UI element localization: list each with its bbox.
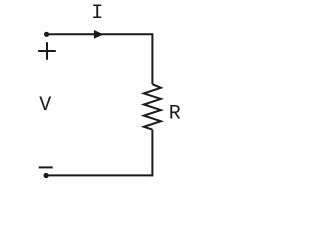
svg-text:V: V (39, 94, 51, 117)
wire: bottom horizontal from - terminal to bottom-right corner (46, 174, 152, 176)
wire: right vertical top lead (151, 33, 153, 84)
plus symbol of source V (38, 42, 56, 60)
minus symbol of source V (39, 166, 53, 168)
node: positive terminal dot (44, 32, 49, 37)
wire: top horizontal from + terminal to top-right corner (47, 33, 153, 35)
wire: right vertical bottom lead (151, 130, 153, 177)
resistor R zigzag (144, 84, 161, 129)
node: negative terminal dot (44, 173, 49, 178)
current arrowhead (I, pointing right) (94, 30, 104, 39)
svg-text:R: R (169, 103, 181, 126)
svg-text:I: I (91, 2, 103, 25)
